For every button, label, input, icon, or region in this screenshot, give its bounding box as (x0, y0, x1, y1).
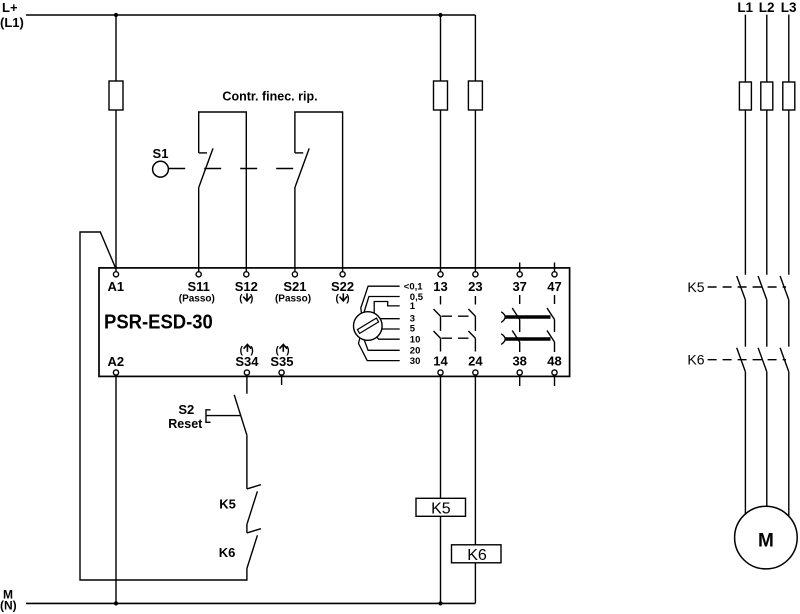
terminal S35 (270, 345, 293, 376)
wire K5 to K6 (246, 524, 248, 533)
wire S1 dashed linkage (168, 168, 297, 170)
svg-text:38: 38 (512, 354, 526, 369)
wire L+ top bus (26, 14, 475, 16)
svg-text:5: 5 (410, 324, 416, 335)
terminal 47 (547, 272, 561, 294)
wire stub below S35 (281, 376, 283, 385)
fuse F5 (761, 82, 773, 110)
terminal 37 (512, 272, 526, 294)
terminal A1 (107, 272, 124, 294)
terminal S12 (235, 272, 258, 305)
fuse F2 (434, 81, 448, 110)
svg-text:A2: A2 (107, 354, 124, 369)
terminal S11 (179, 272, 215, 305)
fuse F6 (783, 82, 795, 110)
svg-text:(: ( (239, 294, 243, 305)
wire S2 to K5 (246, 435, 248, 489)
coil K5 (416, 498, 466, 517)
wire phase L2 (766, 15, 768, 507)
wire delay bar row2 (505, 337, 551, 340)
svg-text:(L1): (L1) (0, 15, 24, 30)
wire delay bar row1 (505, 315, 551, 318)
wire phase L3 (788, 15, 790, 516)
terminal S21 (275, 272, 311, 305)
wire S11 drop (198, 187, 200, 271)
contactor K5 main contacts (687, 276, 788, 300)
contact 37-38 delayed contact (512, 295, 520, 352)
terminal 14 (433, 354, 448, 376)
svg-text:L+: L+ (2, 0, 18, 15)
terminal 48 (547, 354, 561, 376)
wire A1 drop (115, 15, 117, 271)
wire stub below 48 (554, 376, 556, 386)
symbol delay arc row1 (501, 312, 505, 323)
terminal 38 (512, 354, 526, 376)
svg-text:48: 48 (547, 354, 561, 369)
svg-text:S2: S2 (178, 402, 194, 417)
contact K5 NC feedback (219, 485, 261, 525)
svg-text:M: M (758, 531, 774, 552)
svg-text:K5: K5 (219, 497, 236, 512)
svg-text:S1: S1 (153, 146, 169, 161)
label dial scale values (404, 282, 424, 367)
svg-text:): ) (286, 345, 289, 356)
contact S11-S12 door contact loop (199, 112, 247, 271)
wire feedback return loop to A1 (80, 232, 247, 580)
svg-text:S12: S12 (235, 279, 258, 294)
svg-text:S21: S21 (283, 279, 306, 294)
svg-text:1: 1 (410, 301, 416, 312)
pushbutton S1 (153, 146, 169, 177)
terminal 13 (433, 272, 447, 294)
fuse F4 (739, 82, 751, 110)
svg-text:10: 10 (410, 335, 421, 346)
svg-text:K5: K5 (431, 500, 451, 517)
wire M bottom bus (26, 602, 475, 604)
wire phase L1 (744, 15, 746, 515)
contact 47-48 delayed contact (547, 295, 555, 352)
pushbutton S2 reset contact (168, 395, 247, 435)
fuse F1 (109, 81, 123, 110)
node junction dot 14 bus (438, 601, 442, 605)
terminal S34 (235, 345, 259, 376)
svg-text:30: 30 (410, 356, 421, 367)
contact K6 NC feedback (219, 529, 261, 569)
symbol delay arc row2 (501, 334, 505, 345)
svg-text:14: 14 (433, 354, 448, 369)
wire mechanical linkage dashes row2 (442, 337, 470, 339)
wire 24 drop to bus (474, 376, 476, 603)
contact 13-14 relay contact (434, 296, 441, 352)
coil K6 (452, 545, 502, 564)
svg-text:PSR-ESD-30: PSR-ESD-30 (104, 312, 213, 334)
wire S21 drop (294, 187, 296, 271)
wire stub above 47 (554, 263, 556, 272)
wire stub above 37 (519, 263, 521, 272)
terminal S22 (331, 272, 354, 305)
svg-text:S35: S35 (270, 354, 293, 369)
svg-text:K6: K6 (467, 547, 487, 564)
node M label (0, 588, 17, 613)
svg-text:L3: L3 (781, 0, 797, 15)
svg-text:): ) (250, 345, 253, 356)
wire mechanical linkage dashes row1 (442, 315, 470, 317)
svg-text:Reset: Reset (168, 417, 203, 431)
svg-text:K6: K6 (219, 545, 236, 560)
svg-text:L2: L2 (759, 0, 775, 15)
node junction dot 13 branch (438, 13, 442, 17)
svg-text:47: 47 (547, 279, 561, 294)
svg-text:13: 13 (433, 279, 447, 294)
fuse F3 (468, 81, 482, 110)
svg-text:S22: S22 (331, 279, 354, 294)
wire A2 drop (115, 376, 117, 603)
node junction dot A1 branch (114, 13, 118, 17)
svg-text:(Passo): (Passo) (179, 294, 215, 305)
motor M (735, 506, 798, 569)
svg-text:37: 37 (512, 279, 526, 294)
relay U1 PSR-ESD-30 body (99, 268, 570, 377)
svg-text:): ) (346, 294, 349, 305)
svg-text:L1: L1 (737, 0, 753, 15)
terminal 24 (468, 354, 483, 376)
svg-text:Contr. finec. rip.: Contr. finec. rip. (222, 90, 317, 104)
terminal 23 (468, 272, 482, 294)
svg-text:24: 24 (468, 354, 483, 369)
contact 23-24 relay contact (468, 296, 475, 352)
svg-text:): ) (250, 294, 253, 305)
wire stub below 38 (519, 376, 521, 386)
wire 13 drop (440, 15, 442, 271)
node L+ label (0, 0, 24, 30)
wire 23 drop (474, 15, 476, 271)
svg-text:(Passo): (Passo) (275, 294, 311, 305)
svg-text:K5: K5 (687, 279, 704, 295)
wire 14 drop to bus (440, 376, 442, 603)
timer dial rotary selector (354, 286, 400, 360)
contactor K6 main contacts (687, 348, 788, 372)
svg-text:(: ( (336, 294, 340, 305)
contact S21-S22 door contact loop (295, 112, 343, 271)
wire S34 drop to S2 (246, 376, 248, 393)
node L1 L2 L3 labels (737, 0, 797, 15)
svg-text:K6: K6 (687, 352, 704, 368)
node junction dot A2 bus (114, 601, 118, 605)
svg-text:23: 23 (468, 279, 482, 294)
svg-text:A1: A1 (107, 279, 124, 294)
terminal A2 (107, 354, 124, 375)
svg-text:S11: S11 (187, 279, 209, 294)
svg-text:(N): (N) (0, 599, 17, 613)
